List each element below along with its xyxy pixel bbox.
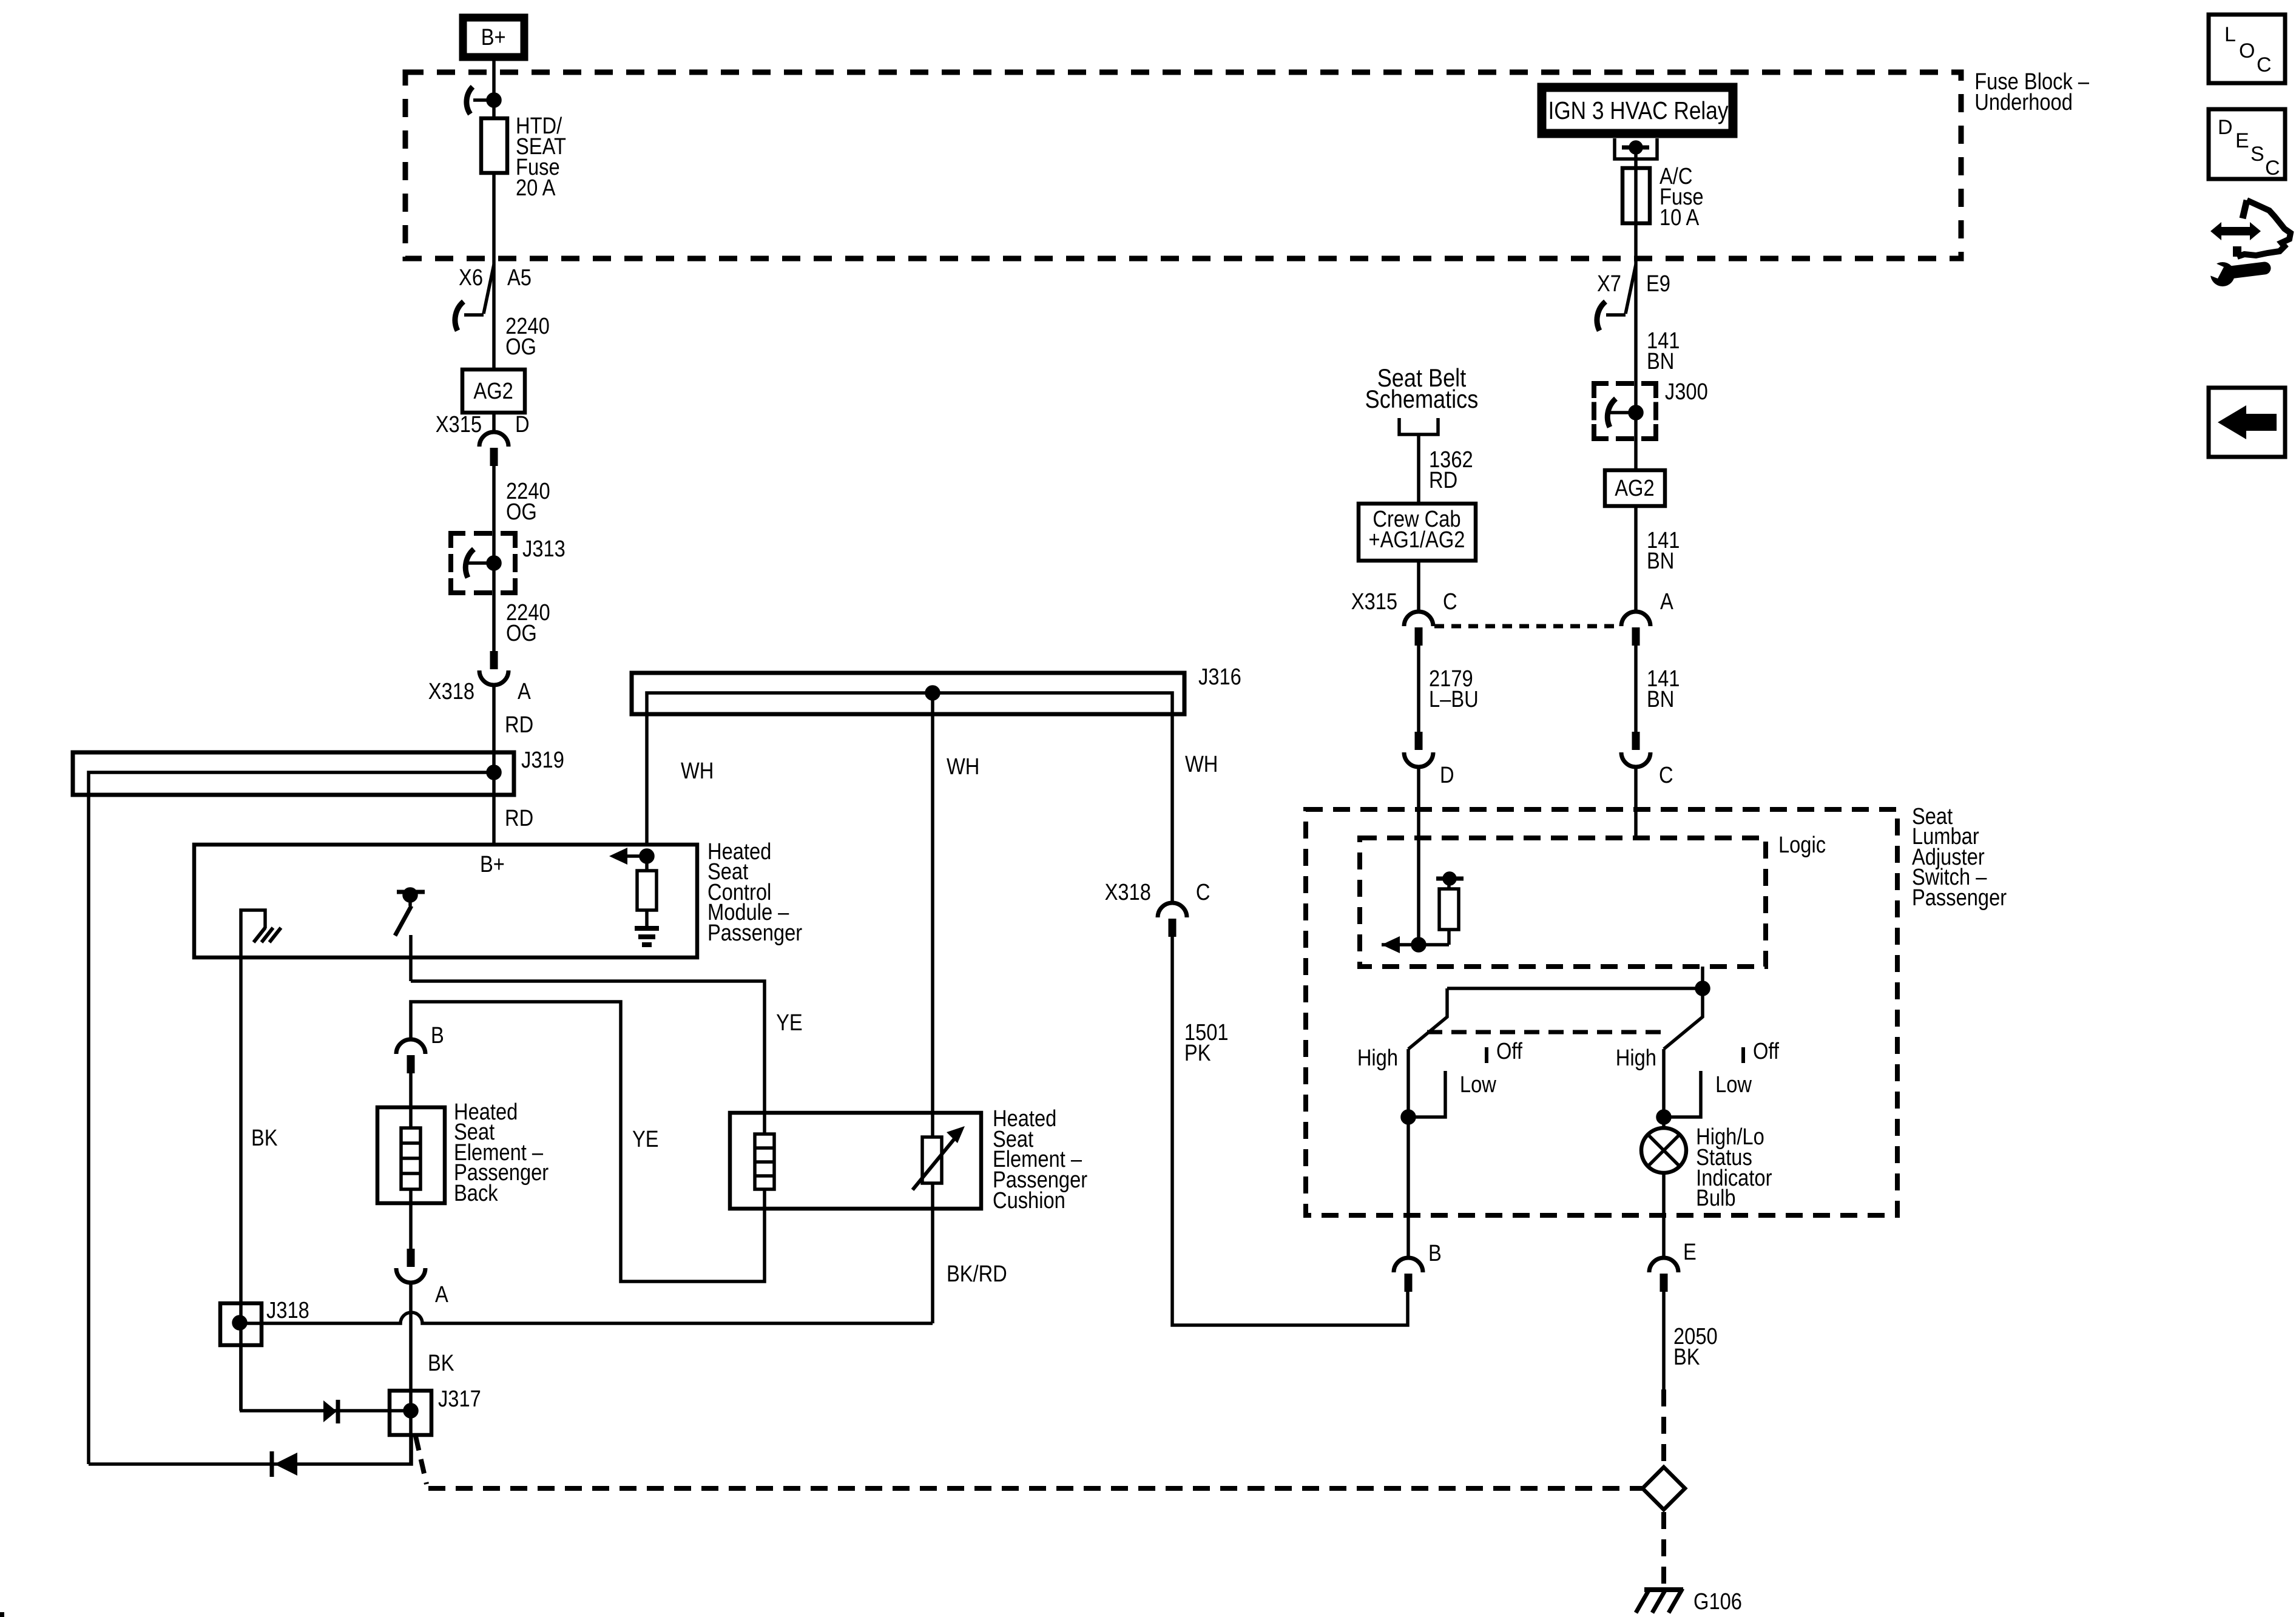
terminal hook at fuse feed	[467, 87, 473, 114]
wire 2240 OG to J313	[492, 466, 496, 533]
svg-text:G106: G106	[1693, 1588, 1742, 1615]
wire YE switch to cushion element	[411, 981, 765, 1134]
connector B of lumbar switch	[1394, 1258, 1423, 1272]
svg-text:E: E	[2235, 129, 2249, 152]
right switch Off tick	[1741, 1047, 1745, 1063]
nav icon DESC box	[2209, 109, 2285, 179]
logic resistor R2	[1447, 930, 1451, 945]
svg-text:J319: J319	[521, 747, 564, 773]
back heating element symbol	[401, 1128, 420, 1189]
svg-text:Low: Low	[1460, 1072, 1496, 1098]
logic output arrow	[1382, 936, 1400, 953]
wire BK return from J319 to diode D2	[87, 795, 90, 1464]
stray mark bottom left corner	[0, 1612, 4, 1617]
splice pack J316 outline	[632, 673, 1184, 714]
svg-text:BN: BN	[1647, 348, 1674, 374]
svg-text:C: C	[1443, 589, 1457, 615]
connector X315 cavity C	[1404, 612, 1433, 626]
junction dot at HTD/SEAT fuse feed	[488, 94, 500, 106]
splice J316 junction dot	[927, 687, 939, 699]
switch common bar	[1447, 987, 1703, 990]
svg-text:High: High	[1357, 1045, 1398, 1071]
svg-text:OG: OG	[506, 620, 537, 646]
connector cavity D at lumbar harness	[1415, 732, 1423, 750]
wire back element to connector A	[409, 1189, 413, 1249]
splice pack J316 internal bus	[647, 693, 1172, 714]
svg-text:B: B	[431, 1022, 444, 1048]
svg-text:B+: B+	[480, 851, 505, 877]
wire 2179 L-BU X315 C to D	[1417, 646, 1420, 732]
wire B to back element	[409, 1073, 413, 1128]
splice J313 junction dot	[488, 557, 500, 569]
svg-text:Back: Back	[454, 1180, 498, 1206]
seat lumbar adjuster switch dashed box	[1306, 809, 1897, 1215]
splice pack J319 outline	[73, 752, 514, 795]
relay pin junction dot	[1630, 142, 1641, 153]
wire YE cushion element return to back element B	[411, 1002, 765, 1281]
splice J318 junction dot	[234, 1317, 246, 1329]
splice pack J319 internal bus	[89, 772, 494, 795]
svg-text:AG2: AG2	[473, 378, 513, 404]
wire BK below J318	[239, 1345, 243, 1411]
tool icon hand outline	[2243, 200, 2247, 218]
svg-text:RD: RD	[505, 712, 533, 738]
heated seat element cushion box	[730, 1113, 981, 1209]
splice J319 junction dot	[488, 766, 500, 778]
svg-text:A5: A5	[507, 265, 532, 291]
svg-text:WH: WH	[1185, 751, 1218, 777]
right switch junction dot	[1658, 1111, 1670, 1123]
wire BK/RD thermistor to J318 run	[931, 1183, 934, 1323]
wire 141 BN into lumbar switch	[1634, 767, 1638, 838]
svg-text:OG: OG	[506, 499, 537, 525]
battery feed B+ symbol box	[463, 18, 524, 57]
svg-text:10 A: 10 A	[1660, 204, 1700, 231]
svg-text:X315: X315	[436, 411, 482, 437]
module junction dot at WH input	[641, 850, 653, 862]
svg-text:RD: RD	[505, 805, 533, 831]
connector X318 cavity A	[490, 651, 498, 669]
svg-text:L: L	[2224, 23, 2236, 46]
svg-text:J318: J318	[266, 1297, 309, 1323]
module internal resistor R1	[645, 856, 649, 871]
svg-text:X315: X315	[1351, 589, 1397, 615]
module internal switch S1 contact	[409, 935, 413, 981]
cushion heating element symbol	[755, 1134, 774, 1189]
wire BK from A through J317	[409, 1283, 413, 1463]
svg-text:20 A: 20 A	[516, 175, 556, 201]
splice J313 dashed box	[451, 533, 515, 593]
splice J318 box	[220, 1303, 262, 1345]
switch common junction dot	[1697, 982, 1709, 994]
logic resistor top terminal bar	[1436, 877, 1464, 881]
wire bulb to connector E	[1662, 1173, 1666, 1258]
wire J317 return to left BK run	[89, 1435, 411, 1464]
splice J317 box	[390, 1391, 431, 1435]
wire WH right J316 to X318 C	[1170, 714, 1174, 903]
svg-text:BK: BK	[428, 1350, 454, 1376]
wire to diode D1 and J317	[240, 1409, 411, 1413]
wire 1501 PK from X318 C to lumbar B	[1172, 937, 1408, 1325]
connector X315 cavity A	[1621, 612, 1650, 626]
svg-text:C: C	[2265, 157, 2280, 180]
module input arrow from WH	[609, 848, 627, 865]
connector A of back element	[407, 1249, 415, 1267]
splice J317 junction dot	[405, 1405, 417, 1417]
dashed ground path J317 to diamond	[416, 1436, 427, 1484]
logic junction dot at D input	[1413, 939, 1425, 951]
svg-text:IGN 3 HVAC Relay: IGN 3 HVAC Relay	[1548, 97, 1729, 125]
left switch Low contact	[1408, 1071, 1445, 1117]
module internal earth ground	[635, 926, 659, 931]
wire WH left J316 to module	[645, 714, 649, 845]
relay K1 IGN 3 HVAC box	[1542, 87, 1733, 133]
relay pin bracket	[1615, 138, 1657, 159]
svg-text:Off: Off	[1753, 1038, 1779, 1064]
splice J300 terminal hook	[1607, 399, 1616, 427]
svg-text:WH: WH	[681, 758, 714, 784]
diode D2	[270, 1451, 274, 1477]
cushion thermistor RT1	[922, 1137, 942, 1183]
svg-text:Underhood: Underhood	[1974, 89, 2073, 115]
svg-text:C: C	[2257, 53, 2272, 76]
logic dashed box	[1360, 838, 1766, 967]
svg-text:OG: OG	[505, 334, 536, 360]
wire fuse to AG2	[492, 173, 496, 370]
svg-text:Schematics: Schematics	[1365, 386, 1479, 414]
wire 141 BN AG2 to X315 A	[1634, 506, 1638, 612]
connector E of lumbar switch	[1649, 1258, 1678, 1272]
svg-text:A: A	[1660, 589, 1673, 615]
svg-text:BK: BK	[251, 1125, 278, 1151]
indicator bulb DS1	[1641, 1128, 1686, 1173]
wire B+ to HTD/SEAT fuse	[492, 61, 496, 118]
svg-text:Logic: Logic	[1778, 832, 1826, 858]
svg-text:O: O	[2239, 39, 2255, 62]
left rocker blade	[1408, 988, 1447, 1049]
wire logic to switch common	[1701, 967, 1704, 988]
relay pin terminal bar	[1622, 146, 1649, 150]
svg-text:Low: Low	[1715, 1072, 1752, 1098]
wire 2050 BK below E	[1662, 1292, 1666, 1389]
svg-text:C: C	[1196, 879, 1210, 905]
splice J300 junction dot	[1630, 407, 1642, 419]
crew cab +AG1/AG2 box	[1359, 504, 1476, 561]
dashed gang line between blades	[1427, 1030, 1670, 1035]
svg-text:YE: YE	[632, 1126, 659, 1152]
seat belt schematics off-page bracket	[1399, 418, 1438, 434]
svg-text:X318: X318	[428, 678, 474, 704]
svg-text:C: C	[1659, 762, 1673, 788]
heated seat element back box	[377, 1107, 445, 1203]
dashed link X315 C to A	[1434, 624, 1619, 629]
diode D1	[323, 1400, 337, 1422]
wire 141 BN X315 A to C	[1634, 646, 1638, 732]
left switch Off tick	[1485, 1047, 1488, 1063]
connector X318 cavity C	[1158, 903, 1187, 917]
svg-text:Passenger: Passenger	[1912, 885, 2007, 911]
fuse F1 HTD/SEAT 20 A	[481, 118, 507, 173]
left switch High contact wire	[1406, 1049, 1410, 1258]
nav icon back arrow box	[2209, 388, 2285, 457]
net AG2 box right	[1605, 470, 1665, 506]
svg-text:E9: E9	[1646, 271, 1670, 297]
svg-text:D: D	[2218, 116, 2233, 139]
wire relay to A/C fuse and J300	[1634, 147, 1638, 383]
svg-text:X318: X318	[1105, 879, 1151, 905]
svg-text:X7: X7	[1597, 271, 1621, 297]
module internal switch S1 blade	[395, 906, 411, 936]
wire crew cab to X315 C	[1417, 561, 1420, 612]
svg-text:High: High	[1616, 1045, 1656, 1071]
svg-text:D: D	[1440, 762, 1454, 788]
svg-text:AG2: AG2	[1615, 475, 1654, 501]
svg-text:A: A	[435, 1281, 448, 1308]
wire AG2 to X315 D	[492, 413, 496, 432]
svg-text:J313: J313	[522, 536, 566, 562]
svg-text:YE: YE	[776, 1010, 803, 1036]
svg-text:WH: WH	[947, 754, 979, 780]
wire WH middle J316 to cushion thermistor	[931, 693, 934, 1137]
logic resistor top junction dot	[1444, 873, 1455, 884]
svg-text:D: D	[515, 411, 530, 437]
right rocker blade	[1664, 988, 1703, 1049]
left switch junction dot	[1402, 1111, 1414, 1123]
wire 141 BN J300 to AG2	[1634, 383, 1638, 470]
svg-text:B+: B+	[481, 24, 506, 50]
svg-text:J300: J300	[1665, 379, 1708, 405]
wire module ground BK to J318 and diode D1	[239, 957, 243, 1411]
svg-text:Passenger: Passenger	[707, 920, 802, 946]
svg-text:RD: RD	[1429, 467, 1457, 493]
wire 2179 L-BU into logic	[1417, 767, 1420, 945]
wire through J313	[492, 533, 496, 593]
right switch High contact wire	[1662, 1049, 1666, 1128]
ground G106 chassis symbol	[1644, 1587, 1683, 1592]
svg-text:S: S	[2250, 143, 2264, 166]
svg-text:BK: BK	[1673, 1344, 1700, 1370]
connector X315 cavity D	[479, 432, 508, 447]
svg-text:A: A	[518, 678, 531, 704]
wire 1362 RD bracket to crew cab box	[1417, 434, 1420, 504]
connector X6 cavity A5 terminal jog	[484, 265, 494, 314]
module internal switch S1 feed bar and dot	[397, 890, 425, 894]
connector X7 cavity E9 terminal jog	[1626, 265, 1636, 314]
fuse F2 A/C 10 A	[1622, 168, 1650, 223]
svg-text:BN: BN	[1647, 548, 1674, 574]
svg-text:L–BU: L–BU	[1429, 686, 1479, 712]
svg-text:J316: J316	[1198, 664, 1241, 690]
fuse block underhood dashed outline	[405, 72, 1961, 258]
svg-text:BK/RD: BK/RD	[947, 1261, 1007, 1287]
svg-text:X6: X6	[459, 265, 483, 291]
tool icon wrench	[2210, 262, 2235, 286]
right switch Low contact	[1664, 1071, 1701, 1117]
svg-text:Off: Off	[1496, 1038, 1522, 1064]
nav icon LOC box	[2209, 15, 2285, 83]
svg-text:PK: PK	[1184, 1040, 1211, 1066]
wire J318 to BK/RD with hop over element A wire	[240, 1312, 933, 1323]
svg-text:Cushion: Cushion	[993, 1187, 1065, 1214]
connector B of back element	[396, 1039, 425, 1054]
tool icon double arrow	[2210, 222, 2261, 240]
dashed wire diamond to G106	[1661, 1512, 1666, 1585]
svg-text:Bulb: Bulb	[1696, 1185, 1735, 1211]
wire 2240 OG to X318 A	[492, 593, 496, 651]
module internal chassis ground	[241, 910, 265, 957]
svg-text:BN: BN	[1647, 686, 1674, 712]
heated seat control module box	[194, 845, 697, 957]
net AG2 box upper	[462, 370, 525, 413]
dashed wire to diamond connector	[1661, 1389, 1666, 1465]
splice J300 dashed box	[1594, 383, 1656, 439]
wire RD to J319 and module	[492, 685, 496, 845]
svg-text:J317: J317	[438, 1386, 481, 1412]
svg-text:E: E	[1683, 1239, 1697, 1265]
svg-text:+AG1/AG2: +AG1/AG2	[1369, 527, 1465, 553]
splice J313 terminal hook	[465, 549, 474, 578]
diamond ground distribution connector	[1643, 1467, 1685, 1510]
svg-text:B: B	[1428, 1240, 1442, 1266]
connector cavity C at lumbar harness	[1632, 732, 1640, 750]
